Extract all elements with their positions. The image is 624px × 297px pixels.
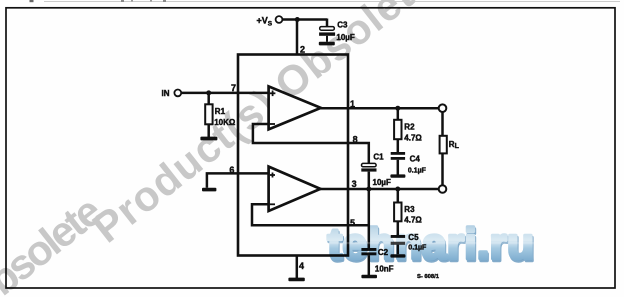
capacitor C5	[391, 235, 405, 245]
wire amp2 output pin 3 rail	[320, 188, 439, 191]
wire RL stubs	[441, 112, 444, 136]
svg-text:C1: C1	[373, 152, 384, 161]
svg-text:C3: C3	[337, 21, 348, 30]
capacitor C4	[391, 152, 405, 160]
svg-text:8: 8	[353, 135, 358, 145]
op-amp A2	[269, 167, 321, 211]
wire R1 bottom stub	[207, 124, 210, 137]
terminal +Vs	[276, 16, 283, 23]
wire amp1 feedback pin 8 to C1	[253, 124, 369, 163]
node Vs junction	[295, 17, 300, 22]
node out1/R2 junction	[395, 106, 400, 111]
ground (R1)	[200, 137, 217, 141]
op-amp A1	[269, 86, 321, 129]
terminal OUT1	[439, 104, 447, 112]
node C1/pin3 junction	[366, 187, 371, 192]
wire C1 bottom to pin5/C2 column	[368, 172, 371, 248]
terminal OUT2	[439, 185, 447, 193]
resistor R2	[394, 120, 401, 139]
wire pin 4 to ground	[296, 256, 299, 279]
svg-text:10µF: 10µF	[336, 33, 355, 42]
svg-text:tehnari.ru: tehnari.ru	[328, 220, 535, 269]
svg-text:10µF: 10µF	[373, 178, 392, 187]
ground (pin 4)	[288, 278, 304, 282]
wire R3 stubs	[397, 189, 400, 203]
terminal IN	[174, 90, 181, 97]
ground (C3)	[319, 42, 335, 46]
svg-text:3: 3	[352, 179, 357, 189]
svg-text:R2: R2	[404, 123, 415, 132]
wire amp1 output to OUT1 terminal	[320, 107, 439, 110]
capacitor C3 (electrolytic)	[319, 27, 335, 42]
svg-text:1: 1	[350, 99, 355, 109]
wire R2 stubs	[397, 108, 400, 120]
wire amp2 feedback pin 5	[252, 204, 369, 225]
IC box U1	[238, 55, 348, 256]
ground (C2)	[361, 275, 377, 278]
watermark Obsolete Product(s)	[0, 0, 442, 297]
top scan artifacts	[30, 0, 621, 2]
svg-text:R3: R3	[404, 205, 415, 214]
svg-text:4.7Ω: 4.7Ω	[404, 134, 422, 143]
wire Vs to pin 2	[296, 20, 299, 56]
svg-text:6: 6	[229, 165, 234, 175]
svg-text:R1: R1	[215, 107, 226, 116]
svg-text:0.1µF: 0.1µF	[408, 168, 427, 175]
svg-text:7: 7	[231, 83, 236, 93]
capacitor C1 (electrolytic)	[361, 163, 376, 171]
resistor R3	[394, 203, 401, 222]
svg-text:IN: IN	[162, 89, 170, 98]
wire R1 top stub	[207, 93, 210, 104]
ground (C5)	[390, 254, 405, 257]
wire C4 ground stub	[397, 160, 400, 175]
wire C5 ground stub	[397, 245, 400, 255]
capacitor C2	[361, 248, 376, 255]
wire IN to pin 7 (+in amp1)	[181, 92, 268, 95]
ground (C4)	[390, 174, 405, 177]
resistor R1	[205, 104, 212, 124]
svg-text:S- 608/1: S- 608/1	[417, 274, 440, 280]
resistor RL	[440, 136, 447, 154]
svg-text:2: 2	[300, 44, 305, 54]
svg-text:C4: C4	[410, 154, 421, 163]
node IN/R1 junction	[206, 90, 211, 95]
wire pin 6 to ground	[207, 173, 269, 187]
wire C3 top stub	[326, 19, 329, 27]
ground (pin 6)	[202, 188, 216, 192]
svg-text:4: 4	[299, 261, 304, 271]
svg-text:10KΩ: 10KΩ	[214, 118, 236, 127]
node out2/R3 junction	[395, 187, 400, 192]
wire +Vs horizontal	[282, 18, 327, 21]
wire C2 bottom stub	[368, 255, 371, 275]
